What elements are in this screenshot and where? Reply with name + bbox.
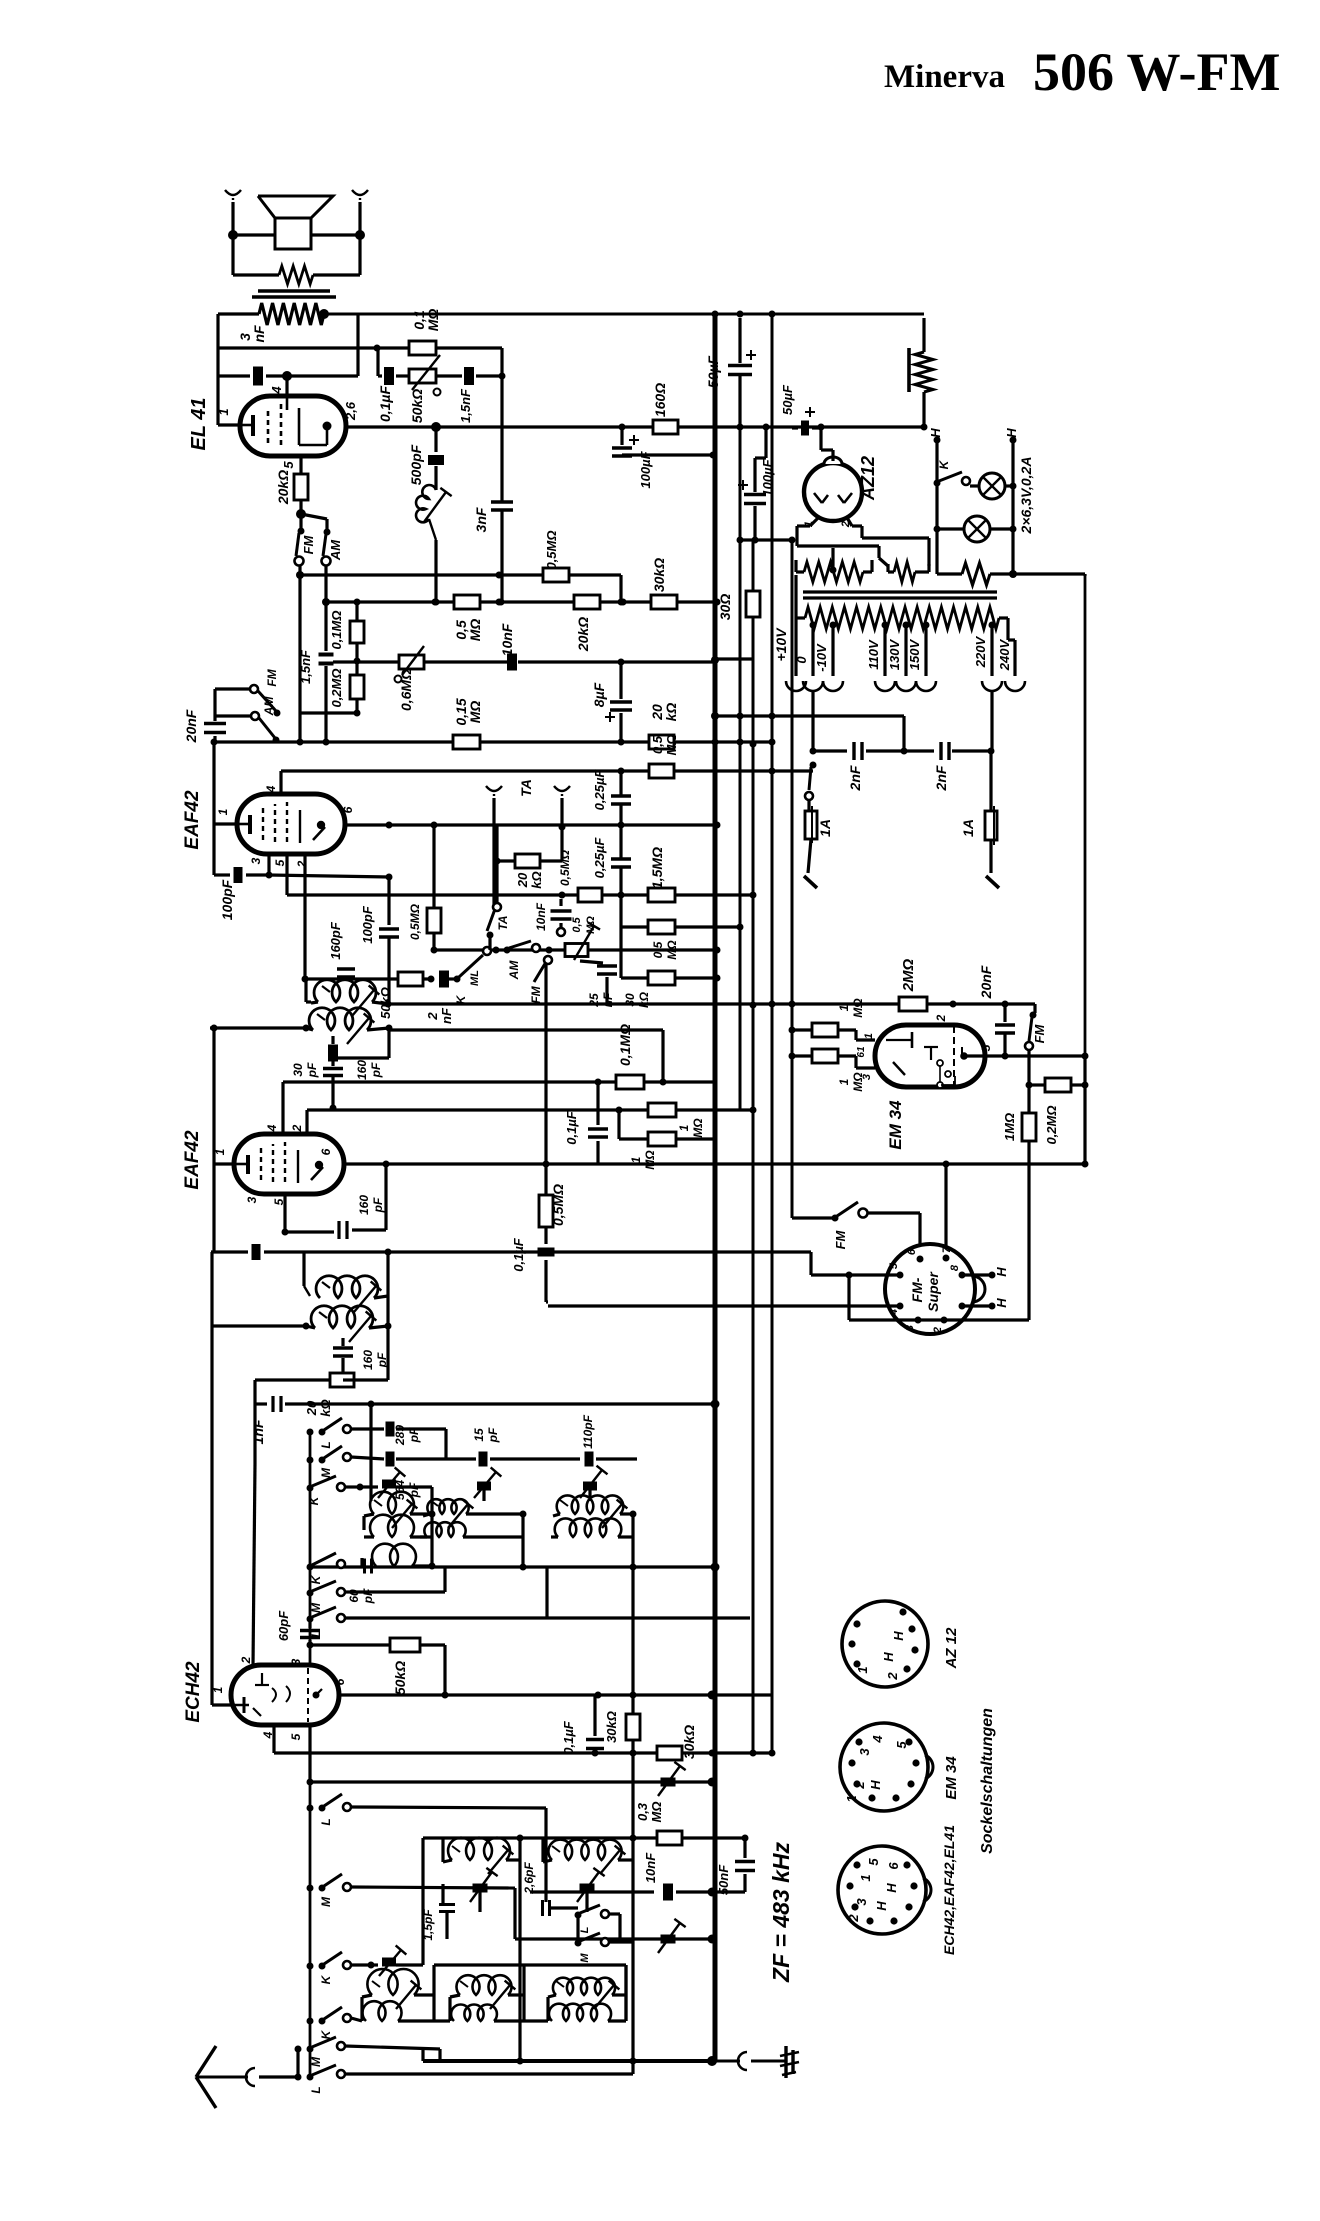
wire lamp left — [935, 440, 938, 574]
wire tap 220V — [982, 622, 1002, 692]
fe coil B — [543, 1838, 633, 1874]
wire EL41 pin4 — [282, 371, 292, 397]
svg-text:H: H — [928, 428, 943, 438]
label super pin6 — [906, 1248, 918, 1255]
wire FM super link — [867, 1213, 920, 1259]
switch K fe — [307, 1952, 352, 1984]
svg-text:0,2MΩ: 0,2MΩ — [329, 668, 344, 707]
label pin5 EAF42a — [273, 859, 287, 866]
label 1A left — [817, 819, 833, 837]
svg-text:1A: 1A — [960, 819, 976, 837]
label 150V — [907, 638, 922, 670]
wire EAF42b pin5 — [282, 1194, 289, 1236]
label 30pF IF1 — [291, 1062, 319, 1078]
svg-text:50µF: 50µF — [780, 384, 795, 415]
label 20nF em — [978, 965, 994, 999]
capacitor 0,1uF rd — [538, 1248, 555, 1303]
unit FM-Super — [885, 1244, 985, 1334]
resistor 20kOhm det — [649, 735, 674, 749]
capacitor 100pF cell — [360, 877, 399, 1004]
wire tap 130V — [896, 622, 916, 692]
wire y713 stub — [300, 711, 357, 714]
switch M fe2 — [575, 1915, 634, 1963]
wire AM-FM bus y575 — [300, 573, 621, 576]
svg-text:nF: nF — [251, 325, 267, 343]
wire K fe — [351, 1962, 375, 1969]
IF2 coil secondary — [211, 1296, 392, 1342]
wire bus y2061 — [423, 1888, 717, 2066]
label FM-Super — [909, 1271, 941, 1312]
trimmer osc K — [360, 1467, 432, 1498]
wire super pin5 in — [392, 1252, 900, 1279]
socket ECH42 group — [838, 1846, 931, 1934]
svg-text:3: 3 — [854, 1898, 869, 1906]
label 0,2MOhm AGC — [329, 668, 344, 707]
wire EAF42a pin3 row — [214, 824, 273, 883]
capacitor 25nF pot — [580, 950, 617, 1004]
rail band switch — [309, 1432, 312, 2077]
svg-text:100µF: 100µF — [760, 458, 775, 496]
tube AZ12 — [804, 457, 862, 521]
svg-text:0,2MΩ: 0,2MΩ — [1044, 1105, 1059, 1144]
svg-text:6: 6 — [906, 1248, 918, 1255]
svg-text:160pF: 160pF — [328, 921, 343, 960]
label AZ12 pin1 — [803, 521, 815, 527]
vert x621 a — [611, 771, 631, 927]
wire y1032 jog — [389, 1030, 663, 1082]
switch L fe — [307, 1794, 352, 1826]
svg-text:5: 5 — [894, 1741, 909, 1749]
svg-text:L: L — [309, 2086, 323, 2093]
resistor 0,1MOhm g2 — [616, 1075, 644, 1089]
label H right — [1004, 428, 1019, 444]
svg-text:2nF: 2nF — [847, 765, 863, 791]
label 0,1MOhm AGC — [329, 610, 344, 649]
label 0,15MOhm — [453, 698, 483, 725]
resistor 0,5MOhm rd — [539, 1161, 553, 1245]
label 1MOhm g a — [677, 1118, 705, 1138]
wire bus y575 corner — [618, 575, 625, 606]
switch M ant — [295, 2037, 346, 2067]
svg-text:3: 3 — [245, 1196, 259, 1203]
osc coil K b — [364, 1515, 432, 1537]
capacitor 160pF IF1 — [328, 1040, 338, 1066]
svg-text:1MΩ: 1MΩ — [1002, 1113, 1017, 1141]
resistor 0,5MOhm screen — [454, 595, 480, 609]
label 0,25uF b — [592, 837, 607, 879]
svg-text:M: M — [579, 1953, 591, 1963]
wire M osc — [351, 1452, 637, 1467]
svg-text:220V: 220V — [973, 635, 988, 668]
label 3nF — [237, 325, 267, 343]
svg-text:564pF: 564pF — [393, 1480, 421, 1500]
wire EAF42a pin6 — [345, 822, 721, 829]
wire EAF42b pin6 down — [384, 1164, 387, 1212]
label 20kOhm — [275, 470, 291, 505]
svg-text:289pF: 289pF — [393, 1425, 421, 1446]
speaker terminal right — [352, 190, 368, 275]
svg-text:AZ12: AZ12 — [858, 456, 878, 501]
label 2nF cap — [425, 1007, 454, 1024]
label 289pF — [393, 1425, 421, 1446]
label 60pF ech — [276, 1610, 291, 1641]
osc coil M a — [423, 1499, 527, 1528]
capacitor 0,1uF g — [588, 1082, 608, 1164]
switch K lamp — [934, 459, 971, 486]
svg-text:7: 7 — [941, 1246, 953, 1253]
wire IF1 sec right — [333, 1028, 389, 1058]
resistor 0,15MOhm — [453, 735, 480, 749]
label 30kOhm ech v — [604, 1711, 619, 1743]
svg-text:FM: FM — [265, 668, 279, 686]
resistor 20kOhm TA — [494, 825, 541, 868]
label 1,5MOhm — [649, 847, 665, 889]
wire tap 0 — [803, 622, 823, 692]
wire am top link — [434, 1963, 524, 1966]
potentiometer 0,5MOhm cell — [565, 916, 600, 960]
svg-text:30kΩ: 30kΩ — [604, 1711, 619, 1743]
switch L fe2 — [575, 1905, 621, 1939]
wire det link — [213, 689, 216, 716]
switch K ant — [307, 2007, 352, 2039]
label 50kOhm ech — [392, 1661, 408, 1695]
ant coil L — [549, 2004, 626, 2021]
svg-text:1,5nF: 1,5nF — [298, 649, 313, 684]
label AZ12 pin2 — [840, 521, 852, 528]
resistor 1MOhm em a — [789, 1023, 876, 1040]
wire cell to pot — [559, 899, 562, 906]
fuse 1A right — [985, 751, 999, 888]
svg-text:50kΩ: 50kΩ — [392, 1661, 408, 1695]
wire IF2 bottom — [343, 1326, 388, 1380]
node y895 junctions — [559, 892, 625, 899]
wire lamp right — [1011, 440, 1014, 574]
osc coil M b — [420, 1514, 527, 1571]
svg-text:5: 5 — [273, 859, 287, 866]
label pin6 EAF42a — [341, 806, 355, 813]
svg-text:110pF: 110pF — [581, 1414, 595, 1448]
label 1MOhm em a — [837, 998, 865, 1018]
switch K osc2 — [309, 1553, 345, 1584]
wire AZ12 fil2 — [846, 516, 929, 566]
label pin4 EL41 — [269, 386, 284, 395]
wire M osc2 — [345, 1567, 445, 1592]
trimmer am K — [371, 1838, 423, 1976]
svg-text:20kΩ: 20kΩ — [304, 1399, 333, 1416]
am coil L var — [524, 1965, 626, 2021]
resistor 20kOhm screen — [574, 595, 600, 609]
label ECH42 — [183, 1661, 204, 1723]
capacitor 2nF b — [904, 742, 995, 760]
label EL41 — [188, 398, 210, 451]
resistor 50kOhm ech — [310, 1638, 449, 1699]
svg-text:50nF: 50nF — [716, 1864, 731, 1895]
ground — [712, 2046, 799, 2078]
wire super pin7 — [944, 1164, 947, 1258]
wire mains bus y716 — [711, 712, 904, 751]
label 2nF a — [847, 765, 863, 791]
label pin4 EAF42b — [265, 1124, 279, 1132]
svg-text:1: 1 — [211, 1686, 225, 1693]
svg-text:-10V: -10V — [814, 643, 829, 672]
label 20kOhm IF2 — [304, 1399, 333, 1416]
svg-text:1: 1 — [858, 1874, 873, 1881]
label pin4 EAF42a — [264, 785, 278, 793]
capacitor 0,1uF — [378, 348, 409, 385]
label 160Ohm — [652, 383, 668, 417]
label 10nF vol — [499, 623, 515, 656]
wire bus y771 — [281, 768, 776, 775]
label 100uF b — [760, 458, 775, 496]
svg-text:FM: FM — [1032, 1023, 1047, 1043]
label 30Ohm — [717, 594, 733, 621]
svg-text:0,5MΩ: 0,5MΩ — [453, 619, 483, 642]
label 1MOhm em v — [1002, 1113, 1017, 1141]
socket EM34 — [840, 1723, 933, 1811]
resistor 0,1MOhm — [377, 341, 502, 376]
svg-text:0,15MΩ: 0,15MΩ — [453, 698, 483, 725]
tube ECH42 — [231, 1665, 339, 1725]
capacitor 1,5pF — [439, 1884, 455, 1939]
trimmer fm a — [658, 1762, 686, 1796]
node y575 — [496, 572, 503, 579]
resistor 50kOhm cell — [398, 972, 423, 986]
svg-text:0,5MΩ: 0,5MΩ — [550, 1184, 566, 1226]
node coil bottom — [433, 599, 440, 606]
svg-text:AM: AM — [507, 960, 521, 981]
label pin1 EL41 — [216, 408, 231, 415]
svg-text:5: 5 — [281, 461, 296, 469]
svg-text:0,6MΩ: 0,6MΩ — [398, 669, 414, 711]
wire bus y1838 — [423, 1835, 749, 1842]
resistor 0,5MOhm vert — [427, 825, 441, 954]
resistor 20kOhm IF2 — [255, 1373, 354, 1404]
wire y428 row — [436, 420, 928, 434]
switch K osc — [307, 1476, 346, 1505]
fuse 1A left — [804, 800, 817, 888]
label pin1 EAF42b — [213, 1148, 227, 1155]
svg-text:5: 5 — [866, 1858, 881, 1866]
capacitor 8uF — [605, 662, 632, 746]
wire tap 150V — [916, 622, 936, 692]
wire speaker frame top — [228, 230, 365, 240]
label EM34 pin3 — [861, 1074, 873, 1080]
label +10V — [773, 627, 789, 662]
capacitor 50nF — [712, 1838, 755, 1892]
label 8uF — [591, 682, 607, 707]
IF2 coil primary — [304, 1252, 388, 1312]
label socket AZ12 — [943, 1627, 960, 1670]
svg-text:100pF: 100pF — [360, 905, 375, 944]
tube EAF42 first — [237, 794, 345, 854]
resistor 0,2MOhm em — [1029, 1078, 1089, 1092]
svg-text:H: H — [881, 1652, 896, 1662]
wire tap -10V — [823, 622, 843, 692]
svg-text:2: 2 — [290, 1124, 304, 1132]
wire EAF42a pin1 — [214, 742, 237, 824]
svg-text:2: 2 — [934, 1014, 948, 1022]
bus vertical x753 — [750, 540, 757, 1757]
capacitor 500pF — [428, 427, 444, 490]
am coil M var — [450, 1965, 524, 2021]
capacitor 30pF IF1 — [323, 1036, 343, 1112]
capacitor 2nF a — [813, 742, 908, 760]
svg-text:Super: Super — [925, 1271, 941, 1312]
resistor 30kOhm av — [621, 927, 721, 985]
label 50nF — [716, 1864, 731, 1895]
wire osc grid — [369, 1404, 372, 1501]
label ZF — [768, 1842, 794, 1983]
svg-text:2nF: 2nF — [933, 765, 949, 791]
svg-text:0,1µF: 0,1µF — [564, 1110, 579, 1145]
label 160pF IF1 — [355, 1060, 383, 1080]
wire x1085 em — [1082, 1056, 1089, 1168]
label 500pF — [408, 444, 424, 485]
svg-text:EM 34: EM 34 — [943, 1756, 960, 1800]
label EM34 — [886, 1100, 905, 1150]
transformer primary — [796, 607, 1008, 629]
capacitor 50uF b — [792, 407, 821, 436]
svg-text:H: H — [868, 1780, 883, 1790]
trimmer fe A — [470, 1868, 498, 1912]
svg-text:M: M — [309, 1602, 323, 1613]
svg-text:+10V: +10V — [773, 627, 789, 662]
svg-text:1: 1 — [855, 1666, 870, 1673]
bus vertical x1085 heater — [1084, 575, 1087, 1164]
wire L ant — [345, 2061, 633, 2074]
transformer core — [803, 592, 997, 598]
resistor 30kOhm ech bus — [657, 1746, 682, 1760]
am coil K var — [362, 1965, 434, 2021]
label EAF42 second — [182, 1130, 203, 1190]
svg-text:3: 3 — [904, 1325, 916, 1331]
wire bus y950 — [434, 947, 721, 954]
trimmer fm b — [658, 1919, 686, 1953]
IF1 coil secondary — [303, 1008, 393, 1044]
wire bus y1404 — [255, 1396, 720, 1412]
svg-text:M: M — [309, 2056, 323, 2067]
label 564pF — [393, 1480, 421, 1500]
wire super H2 — [962, 1298, 1009, 1310]
svg-text:0,1MΩ: 0,1MΩ — [329, 610, 344, 649]
svg-text:M: M — [319, 1896, 333, 1907]
label 240V — [997, 638, 1012, 671]
wire EM34 pin5 row — [964, 1053, 1089, 1060]
svg-text:5: 5 — [979, 1044, 993, 1051]
svg-text:Sockelschaltungen: Sockelschaltungen — [979, 1708, 996, 1854]
wire bus y979 — [305, 977, 434, 980]
svg-text:0,5MΩ: 0,5MΩ — [544, 530, 559, 569]
wire EAF42a pin2 — [302, 854, 309, 983]
label 0,6MOhm — [398, 669, 414, 711]
svg-text:EM 34: EM 34 — [886, 1100, 905, 1150]
label pin2,6 EL41 — [343, 401, 358, 421]
svg-text:2: 2 — [852, 1781, 867, 1790]
svg-text:1,5nF: 1,5nF — [458, 388, 473, 423]
transformer heater winding — [796, 548, 872, 582]
label 25nF — [587, 992, 615, 1008]
svg-text:4: 4 — [264, 785, 278, 793]
label 20kOhm screen — [575, 617, 591, 652]
label 220V — [973, 635, 988, 668]
wire am rail x626 — [624, 1965, 627, 2021]
resistor 1MOhm g b — [619, 1110, 716, 1146]
capacitor 10nF vol — [507, 654, 717, 671]
wire bus y1892 — [530, 1884, 717, 1901]
tube EL41 — [240, 396, 346, 456]
svg-text:EAF42: EAF42 — [182, 790, 203, 850]
svg-text:FM: FM — [301, 534, 316, 554]
svg-text:0,5MΩ: 0,5MΩ — [558, 849, 572, 886]
wire y895 corner — [750, 892, 757, 1009]
resistor 30kOhm screen — [651, 595, 677, 609]
label pin2 EAF42b — [290, 1124, 304, 1132]
label super pin5 — [888, 1262, 900, 1269]
label 15pF — [472, 1427, 500, 1443]
wire super H1 — [962, 1267, 1009, 1279]
resistor 1MOhm em v — [1022, 1085, 1036, 1320]
label 160pF IF2a — [357, 1195, 385, 1215]
label pin5 ech — [289, 1733, 303, 1740]
switch FM mid — [529, 956, 552, 1195]
wire EAF42b pin1 — [211, 1025, 236, 1165]
wire ech pin2 — [253, 1404, 255, 1666]
wire 220V down — [990, 690, 993, 751]
svg-text:60pF: 60pF — [276, 1610, 291, 1641]
wire 0V down — [810, 690, 817, 755]
label pin2 EAF42a — [295, 860, 309, 868]
switch M fe — [307, 1874, 352, 1907]
label EM34 pin2 — [934, 1014, 948, 1022]
trimmer osc M — [474, 1467, 501, 1501]
label 60pF osc — [347, 1588, 375, 1604]
svg-text:H: H — [1004, 428, 1019, 438]
capacitor 160pF IF2b — [333, 1338, 353, 1366]
label socket ECH42 group — [941, 1825, 957, 1955]
svg-text:8µF: 8µF — [591, 682, 607, 707]
wire EAF42a pin5 — [287, 854, 753, 895]
wire tap +10V — [786, 606, 806, 691]
tube EAF42 second — [234, 1134, 344, 1194]
ant coil M — [451, 2004, 548, 2021]
label AZ12 — [858, 456, 878, 501]
svg-text:ML: ML — [469, 970, 481, 986]
svg-text:10nF: 10nF — [643, 1852, 658, 1883]
label 50kOhm cell — [378, 987, 393, 1019]
svg-text:2: 2 — [932, 1327, 944, 1334]
svg-text:1: 1 — [216, 808, 230, 815]
svg-text:1A: 1A — [817, 819, 833, 837]
label 0,5MOhm diode — [558, 849, 572, 886]
node 357-602 — [354, 599, 721, 606]
wire osc bottom bus — [307, 1563, 720, 1572]
wire IF2 left rail — [212, 1164, 214, 1705]
svg-text:160pF: 160pF — [355, 1060, 383, 1080]
capacitor 20nF — [204, 716, 226, 742]
svg-text:0,1µF: 0,1µF — [377, 386, 393, 423]
resistor 0,3MOhm — [657, 1831, 682, 1845]
wire anode row — [347, 422, 441, 432]
potentiometer 50kOhm — [409, 355, 462, 396]
label pin5 EAF42b — [272, 1198, 286, 1205]
resistor 30Ohm — [711, 591, 760, 664]
svg-text:2MΩ: 2MΩ — [900, 958, 917, 992]
svg-text:240V: 240V — [997, 638, 1012, 671]
wire transformer left — [218, 312, 259, 315]
terminal TA left — [486, 786, 502, 905]
svg-text:H: H — [994, 1298, 1009, 1308]
svg-text:ZF = 483 kHz: ZF = 483 kHz — [768, 1842, 794, 1983]
